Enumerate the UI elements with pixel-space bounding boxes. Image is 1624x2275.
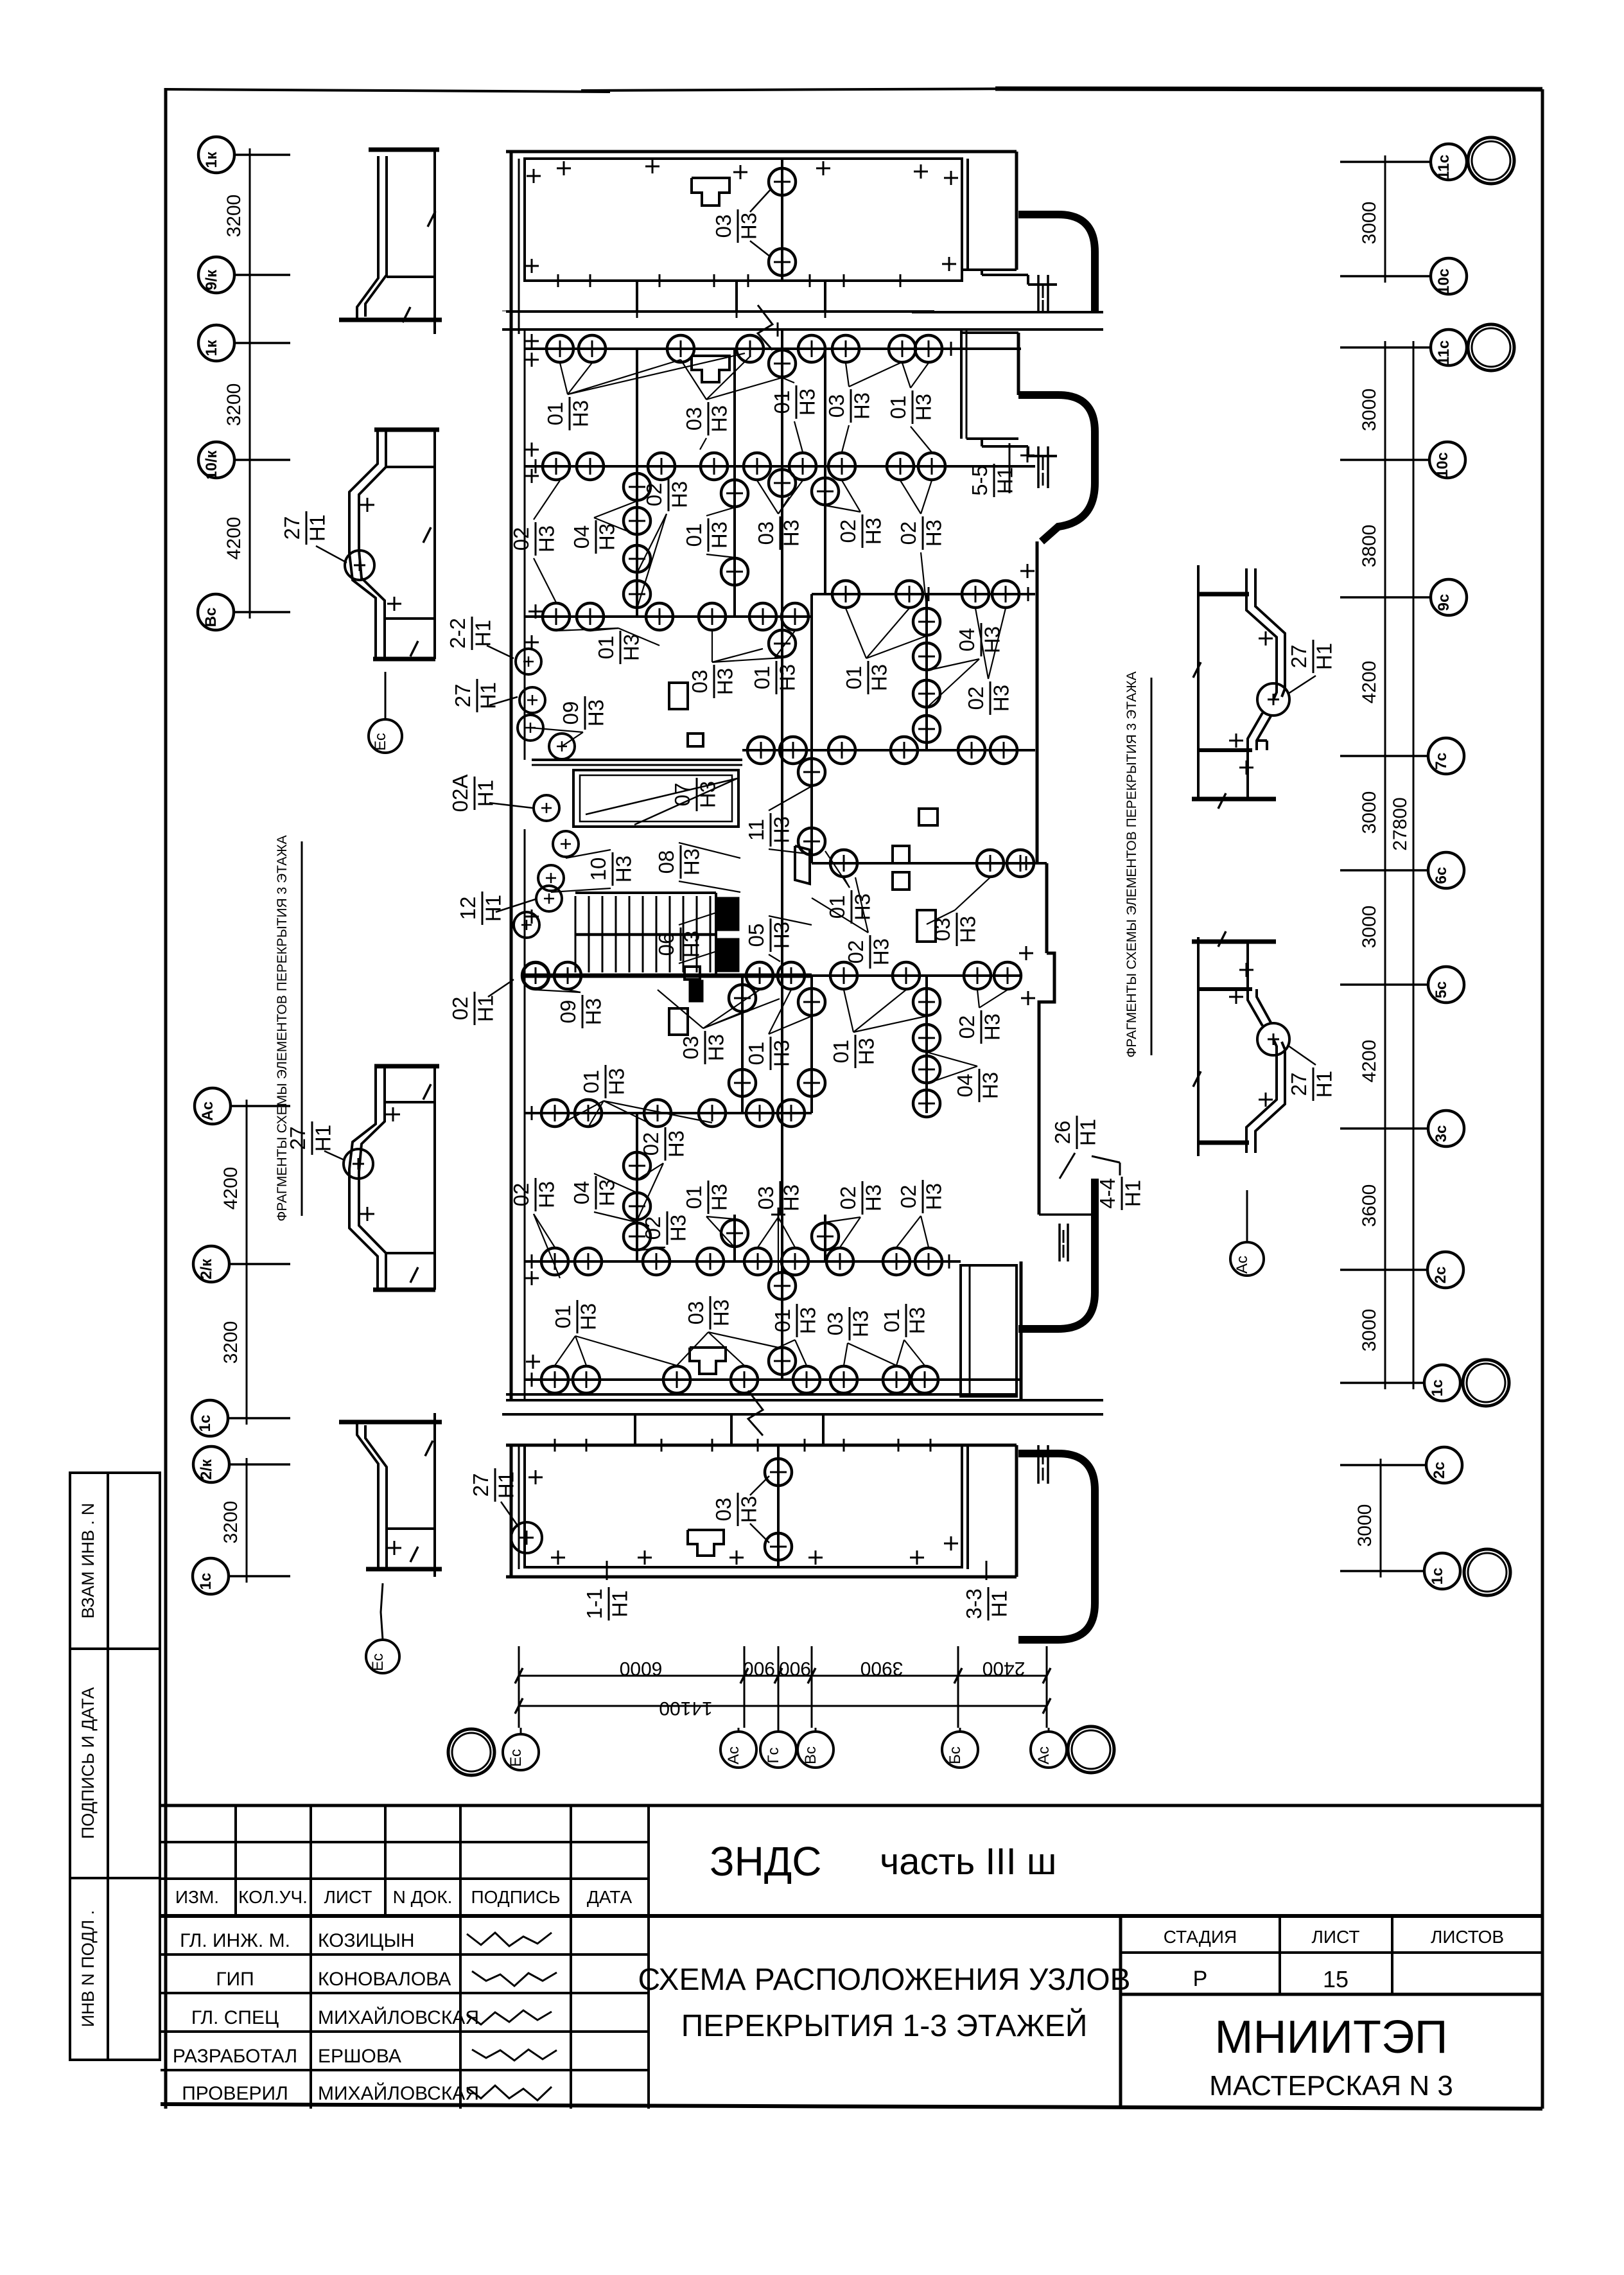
svg-text:ПОДПИСЬ: ПОДПИСЬ [471,1887,560,1907]
axis stub Вс [234,611,290,613]
svg-text:Н3: Н3 [779,1184,803,1211]
svg-text:ДАТА: ДАТА [587,1887,633,1907]
label 01/Н3 zone [682,518,731,552]
node row y=543 [525,347,1021,350]
svg-text:Н3: Н3 [707,522,731,549]
axis stub 9с [1340,596,1431,599]
svg-text:МИХАЙЛОВСКАЯ: МИХАЙЛОВСКАЯ [318,2007,479,2028]
node row y=726 [525,465,1035,468]
axis stub 2с [1340,1269,1428,1271]
svg-text:01: 01 [551,1305,575,1329]
svg-text:07: 07 [670,783,694,807]
svg-text:02: 02 [896,522,920,545]
axis circle Ас bottom [720,1732,756,1768]
plus marks top segment [527,175,541,177]
svg-text:03: 03 [754,522,778,545]
axis circle 11с [1431,144,1467,180]
balcony arc A4 [1018,1454,1095,1640]
stamp grid right [1119,1916,1122,2109]
svg-text:2/к: 2/к [198,1459,215,1480]
svg-text:1-1: 1-1 [582,1588,606,1619]
svg-text:02А: 02А [448,775,472,812]
label 01/Н3 zone [829,1035,878,1068]
axis stub 7с [1340,755,1428,757]
axis circle 2/к [193,1246,229,1282]
svg-text:Н3: Н3 [584,699,607,726]
dim 3800 r [1359,525,1380,568]
label 02/Н3 zone [642,478,691,511]
svg-text:6с: 6с [1433,867,1450,884]
label 27/Н1 RF2 [1287,1067,1336,1101]
svg-text:9с: 9с [1435,594,1453,611]
axis circle 10с [1429,442,1465,478]
break line top [502,328,1103,331]
svg-text:Н3: Н3 [737,1496,760,1523]
corner wall at 1264 [810,594,813,618]
svg-text:Н3: Н3 [769,922,793,949]
bottom dim extension lines [518,1646,520,1728]
svg-text:03: 03 [684,1301,708,1325]
svg-text:2с: 2с [1432,1267,1449,1284]
svg-text:10/к: 10/к [203,450,220,479]
dim 3200 d [220,1501,241,1544]
svg-text:ПОДПИСЬ И ДАТА: ПОДПИСЬ И ДАТА [78,1687,98,1839]
svg-text:Н3: Н3 [775,664,799,691]
svg-text:Н1: Н1 [311,1125,335,1152]
door rect c [919,809,938,825]
svg-text:Н1: Н1 [473,995,497,1022]
svg-text:09: 09 [556,1000,580,1024]
node column x=992 [636,1113,638,1261]
svg-text:02: 02 [639,1132,663,1156]
svg-text:Н3: Н3 [921,1183,945,1210]
axis circle 7с [1428,738,1464,774]
node row y=1964 [525,1260,961,1263]
svg-text:01: 01 [886,396,910,419]
door rect d [669,1008,688,1035]
svg-text:СТАДИЯ: СТАДИЯ [1164,1927,1237,1947]
svg-text:09: 09 [559,701,582,725]
svg-text:2/к: 2/к [198,1258,215,1279]
label 02/Н1 [448,992,497,1025]
plan left wall central [510,329,513,1400]
wall nodes left [516,649,541,674]
svg-text:11: 11 [744,819,768,841]
label 01/Н3 zone [682,1181,731,1214]
label 12/Н1 [456,892,505,925]
svg-text:ГИП: ГИП [216,1969,254,1990]
svg-text:3200: 3200 [223,383,245,426]
right dim chain main [1384,347,1386,1383]
axis circle 1с [1424,1365,1460,1401]
svg-text:Н3: Н3 [850,392,873,419]
svg-text:Н3: Н3 [707,405,731,432]
node column x=1443 [925,976,928,1113]
label 09/Н3 zone [559,696,607,730]
label 04/Н3 zone [953,1069,1002,1102]
svg-text:5-5: 5-5 [968,465,991,496]
plan top slab ticks [557,274,559,287]
axis circle 1с [1424,1553,1460,1589]
svg-text:ГЛ. ИНЖ. М.: ГЛ. ИНЖ. М. [180,1930,290,1951]
axis stub 3с [1340,1127,1428,1130]
dim 4200 r [1359,1040,1380,1083]
label 03/Н3 zone [679,1031,728,1064]
label 03/Н3 bottom segment [712,1493,760,1526]
node row y=1344 [812,862,1047,865]
svg-text:Н3: Н3 [679,931,703,958]
door rect a [669,683,688,709]
label 02/Н3 zone [509,1178,558,1211]
node row y=960 [525,615,812,618]
dim 3000 r1 [1359,202,1380,245]
svg-text:05: 05 [744,924,768,947]
axis stub 6с [1340,869,1428,872]
svg-text:Н3: Н3 [769,1040,793,1067]
svg-text:Н3: Н3 [713,668,737,695]
section fragment LF1 [369,148,439,152]
svg-text:Н3: Н3 [921,520,945,547]
svg-text:3200: 3200 [220,1321,241,1364]
axis circle 5с [1428,967,1464,1003]
left dim chain lower2 [246,1464,248,1576]
axis circle 9/к [198,257,234,293]
section fragment LF3 [374,1064,439,1069]
axis stub 1с [1340,1382,1424,1384]
node row y=2148 [525,1378,1021,1381]
svg-text:14100: 14100 [659,1698,712,1719]
svg-text:1к: 1к [203,339,220,356]
signatures [467,1933,552,1946]
svg-text:N ДОК.: N ДОК. [393,1887,453,1907]
stair room rect [573,770,738,827]
svg-text:4-4: 4-4 [1096,1178,1119,1209]
svg-text:ФРАГМЕНТЫ СХЕМЫ ЭЛЕМЕНТОВ ПЕРЕ: ФРАГМЕНТЫ СХЕМЫ ЭЛЕМЕНТОВ ПЕРЕКРЫТИЯ 3 Э… [275,835,290,1221]
svg-text:01: 01 [771,1309,794,1333]
svg-text:2с: 2с [1431,1462,1448,1479]
axis stub 1к [234,342,290,344]
axis circle 2с [1428,1252,1463,1288]
svg-text:1с: 1с [197,1573,214,1590]
dim 4200 a [223,517,245,560]
double circle a [1468,137,1514,184]
svg-text:3800: 3800 [1359,525,1380,568]
label 03/Н3 zone [682,402,731,435]
svg-text:КОЛ.УЧ.: КОЛ.УЧ. [238,1887,308,1907]
svg-text:01: 01 [682,1186,706,1209]
svg-text:Н3: Н3 [795,389,819,416]
axis stub 1с [228,1417,290,1419]
svg-text:Н1: Н1 [1076,1119,1099,1146]
svg-text:3с: 3с [1433,1125,1450,1143]
svg-text:Н3: Н3 [704,1034,728,1061]
node 27/Н1 bottom wall [511,1522,542,1553]
svg-text:27: 27 [1287,645,1311,669]
svg-text:ЗНДС: ЗНДС [710,1838,821,1884]
svg-text:01: 01 [825,895,849,919]
svg-text:ЛИСТ: ЛИСТ [324,1887,372,1907]
svg-text:3000: 3000 [1354,1504,1375,1547]
svg-text:900: 900 [779,1658,811,1679]
node column x=1218 [781,329,783,1380]
svg-text:03: 03 [679,1036,703,1060]
node column x=1443 [925,594,928,750]
svg-text:02: 02 [836,520,860,543]
hopper top segment [692,178,729,206]
Ec circle upper [369,719,402,753]
label 01/Н3 zone [770,385,819,419]
svg-text:ИЗМ.: ИЗМ. [175,1887,219,1907]
node row y=925 [812,593,1035,595]
balcony arc A1 [1018,215,1095,312]
svg-text:7с: 7с [1433,753,1450,770]
label 01/Н3 zone [825,890,874,924]
svg-text:02: 02 [964,687,988,710]
plus marks central [525,340,539,342]
svg-text:6000: 6000 [620,1658,663,1679]
label 11/Н3 zone [744,813,793,847]
label 5-5/Н1 [968,464,1017,497]
label 02/Н3 zone [836,514,885,548]
svg-text:ЛИСТ: ЛИСТ [1312,1927,1360,1947]
svg-text:Н3: Н3 [568,400,592,427]
axis circle 10/к [198,442,234,478]
caption right fragments [1124,671,1139,1057]
svg-text:МИХАЙЛОВСКАЯ: МИХАЙЛОВСКАЯ [318,2082,479,2104]
svg-text:ГЛ. СПЕЦ: ГЛ. СПЕЦ [191,2007,279,2028]
node column x=1144 [733,1215,736,1261]
svg-text:03: 03 [712,215,735,238]
parallelogram [795,846,810,884]
svg-text:Н1: Н1 [494,1471,518,1498]
svg-text:Н1: Н1 [607,1590,631,1617]
node col bottom segment [777,1445,780,1567]
svg-text:КОНОВАЛОВА: КОНОВАЛОВА [318,1969,451,1990]
dim 3200 a [223,195,245,238]
svg-text:Н3: Н3 [989,685,1013,712]
svg-text:Н1: Н1 [305,514,329,541]
svg-text:04: 04 [953,1074,977,1098]
axis circle 10с [1431,258,1467,294]
label 02/Н3 zone [955,1010,1004,1044]
right dim chain pair1 [1384,162,1386,276]
svg-text:9/к: 9/к [203,269,220,290]
svg-text:3600: 3600 [1359,1184,1380,1227]
svg-text:Н1: Н1 [993,467,1017,494]
label 01/Н3 zone [771,1304,819,1337]
svg-text:1с: 1с [1429,1380,1446,1397]
svg-text:Н3: Н3 [861,518,885,545]
svg-text:Вс: Вс [802,1746,819,1764]
svg-text:01: 01 [829,1040,853,1064]
label 27/Н1 RF1 [1287,640,1336,673]
label 27/Н1 LF3 [286,1121,335,1155]
svg-text:02: 02 [844,940,868,964]
svg-text:Н3: Н3 [664,1130,688,1157]
svg-text:Ес: Ес [507,1749,525,1767]
svg-text:Н3: Н3 [911,394,935,421]
axis stub 1с [1340,1570,1424,1572]
svg-text:Вс: Вс [202,608,220,628]
svg-text:часть III ш: часть III ш [880,1841,1056,1883]
section fragment RF1 [1197,565,1200,799]
node column x=1285 [824,1215,826,1261]
svg-text:3000: 3000 [1359,906,1380,949]
label 03/Н3 zone [684,1296,733,1330]
label 01/Н3 zone [750,661,799,694]
svg-text:27: 27 [286,1127,310,1150]
label 09/Н3 zone [556,995,605,1028]
stair room walls [532,759,742,761]
axis circle Ас bottom [1031,1732,1067,1768]
svg-text:Н3: Н3 [667,481,691,508]
dim 4200 r [1359,661,1380,704]
svg-text:Н3: Н3 [737,213,760,240]
label 04/Н3 zone [570,520,618,554]
door rect b [893,846,909,863]
double circle bottom left [448,1729,494,1775]
node column x=1144 [733,349,736,617]
svg-text:Н1: Н1 [1121,1180,1144,1207]
svg-text:01: 01 [594,636,618,660]
label 03/Н3 zone [688,665,737,698]
node column x=1285 [824,349,826,594]
svg-text:ЕРШОВА: ЕРШОВА [318,2046,401,2067]
label 02/Н3 zone [964,681,1013,715]
svg-text:02: 02 [955,1015,979,1039]
svg-text:Н1: Н1 [1312,643,1336,670]
svg-text:03: 03 [712,1498,735,1522]
section fragment LF4 [339,1420,442,1425]
svg-text:Н3: Н3 [611,856,635,883]
axis circle Ас [195,1088,231,1124]
svg-text:11с: 11с [1435,155,1453,180]
fan 07 [586,778,737,814]
svg-text:Н3: Н3 [695,781,719,808]
svg-text:02: 02 [641,1217,665,1240]
label 01/Н3 zone [886,391,935,424]
svg-text:02: 02 [509,527,533,551]
axis circle 3с [1428,1111,1464,1146]
svg-text:Ас: Ас [725,1746,742,1764]
axis stub 1с [229,1575,290,1577]
axis stub 2/к [229,1263,290,1265]
axis stub 10с [1340,459,1429,461]
svg-text:1к: 1к [203,151,220,168]
label 01/Н3 zone [551,1300,600,1333]
svg-text:4200: 4200 [1359,1040,1380,1083]
label 01/Н3 zone [744,1037,793,1070]
svg-text:ИНВ N ПОДЛ .: ИНВ N ПОДЛ . [78,1910,98,2027]
svg-text:27800: 27800 [1390,797,1411,850]
label 03/Н3 zone [754,1181,803,1215]
node column x=1156 [741,976,744,1113]
node row y=1168 [742,749,1035,751]
dim 3000 r9 [1354,1504,1375,1547]
svg-text:Н3: Н3 [595,523,618,550]
double circle bottom right [1068,1726,1114,1773]
svg-text:Ас: Ас [199,1102,216,1121]
left dim chain upper [249,155,251,612]
dim 4200 b [220,1167,241,1210]
Ac circle right [1230,1242,1264,1276]
svg-text:Ас: Ас [1234,1256,1251,1274]
label 3-3/Н1 [962,1587,1011,1621]
svg-text:04: 04 [570,1181,593,1205]
label 1-1/Н1 [582,1587,631,1621]
svg-text:10с: 10с [1435,268,1453,294]
svg-text:10: 10 [586,857,610,881]
label 01/Н3 zone [579,1065,628,1098]
strip label ИНВ N ПОДЛ [78,1910,98,2027]
label 06/Н3 zone [654,927,703,961]
strip label ПОДПИСЬ И ДАТА [78,1687,98,1839]
svg-text:Н3: Н3 [666,1215,690,1242]
label 01/Н3 zone [594,631,643,664]
top band [506,310,934,313]
svg-text:Н3: Н3 [534,525,558,552]
svg-text:Н3: Н3 [867,664,891,691]
label 02/Н3 zone [896,516,945,550]
svg-text:Н3: Н3 [679,848,703,875]
label 2-2/Н1 [446,617,494,650]
svg-text:02: 02 [509,1183,533,1207]
Ec circle lower [366,1640,399,1673]
label 27/Н1 wall [451,679,500,712]
plan bottom segment outline [506,1444,1017,1447]
svg-text:СХЕМА РАСПОЛОЖЕНИЯ УЗЛОВ: СХЕМА РАСПОЛОЖЕНИЯ УЗЛОВ [638,1963,1130,1997]
svg-text:01: 01 [744,1042,768,1066]
svg-text:03: 03 [825,394,848,418]
svg-text:2400: 2400 [982,1658,1026,1679]
svg-text:ВЗАМ ИНВ . N: ВЗАМ ИНВ . N [78,1503,98,1619]
svg-text:Н3: Н3 [709,1299,733,1326]
svg-text:1с: 1с [196,1415,214,1432]
axis circle 1с [192,1400,228,1436]
node row y=1519 [525,974,1021,977]
svg-text:Н3: Н3 [978,1072,1002,1099]
axis stub 9/к [234,274,290,276]
axis circle Бс bottom [942,1732,978,1768]
label 04/Н3 zone [955,623,1004,656]
caption left fragments [275,835,290,1221]
svg-text:Ас: Ас [1035,1746,1052,1764]
svg-text:МНИИТЭП: МНИИТЭП [1215,2012,1448,2063]
svg-text:26: 26 [1051,1121,1074,1145]
svg-text:2-2: 2-2 [446,618,469,649]
axis circle 2/к [193,1446,229,1482]
bottom dim chain2 [519,1705,1047,1707]
svg-text:01: 01 [543,402,567,426]
svg-text:ПРОВЕРИЛ: ПРОВЕРИЛ [182,2083,288,2104]
label 02А/Н1 [448,775,497,812]
axis stub 2с [1340,1464,1426,1466]
balcony arc A5 riser [1037,1445,1040,1484]
svg-text:3-3: 3-3 [962,1588,986,1619]
dim 3200 b [223,383,245,426]
plan right edge central [960,329,963,439]
label 03/Н3 zone [754,516,803,550]
axis circle Вс bottom [798,1732,834,1768]
svg-text:02: 02 [642,483,666,507]
axis stub 11с [1340,346,1431,349]
label 08/Н3 zone [654,845,703,879]
svg-text:4200: 4200 [1359,661,1380,704]
axis stub 1к [234,154,290,156]
title block grid [161,1804,1542,1807]
svg-text:27: 27 [469,1473,493,1497]
axis stub Ас [231,1105,290,1107]
